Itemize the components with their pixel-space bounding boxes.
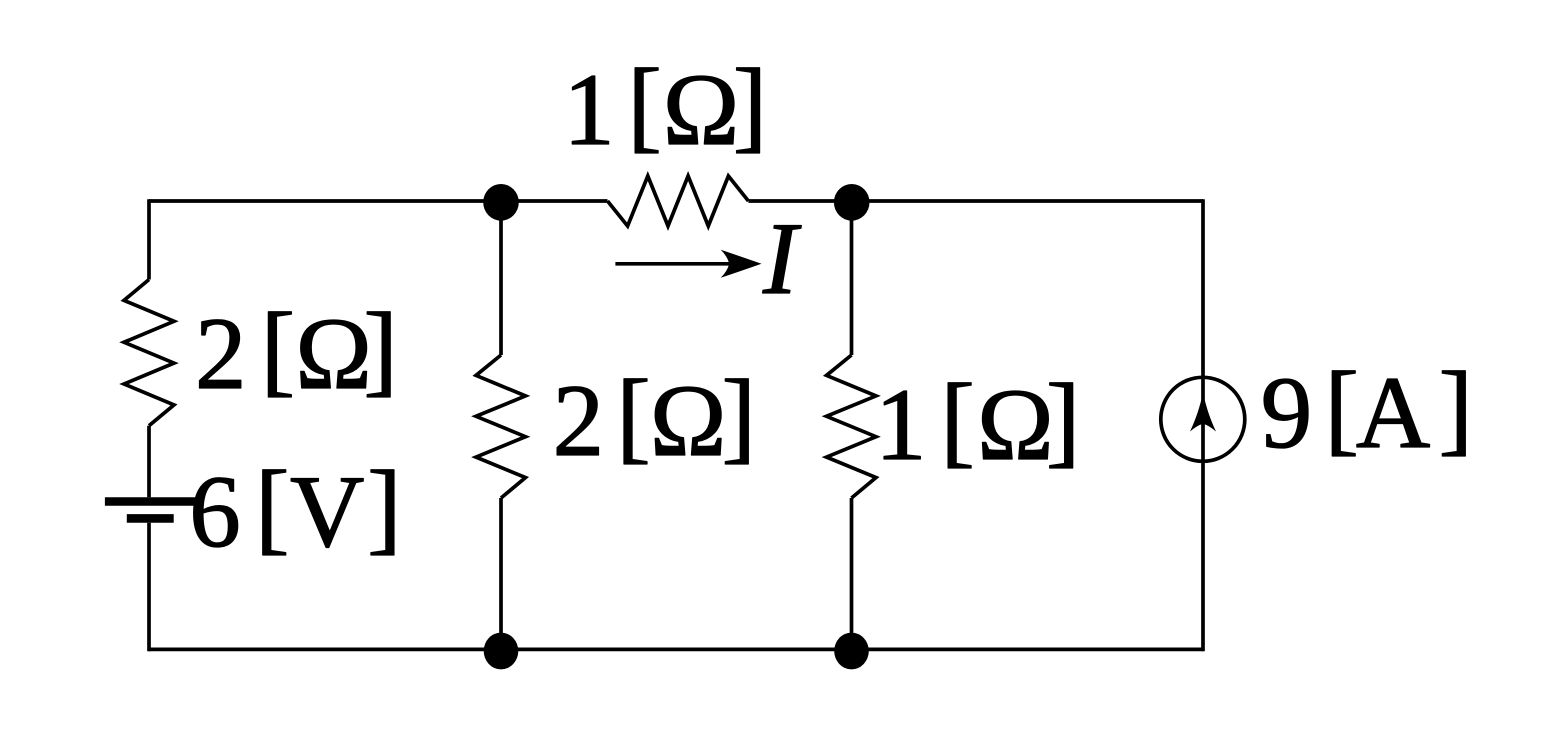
svg-text:]: ] [722, 359, 756, 473]
current source I1 arrowhead (up) [1190, 393, 1216, 432]
svg-text:2: 2 [553, 364, 605, 478]
svg-text:6: 6 [189, 455, 241, 569]
svg-text:[: [ [255, 450, 289, 564]
battery V1 short plate [127, 514, 174, 523]
svg-text:1: 1 [563, 53, 615, 167]
svg-text:[: [ [261, 292, 295, 406]
wire top-left: node A to node B [149, 199, 608, 203]
node E dot (bottom right-middle) [834, 633, 869, 670]
resistor R3 2-ohm (middle vertical zigzag) [476, 355, 526, 498]
svg-text:9: 9 [1261, 356, 1313, 470]
wire right branch [1201, 199, 1205, 651]
svg-text:Ω: Ω [295, 297, 372, 411]
svg-text:1: 1 [875, 368, 927, 482]
wire left branch top [147, 199, 151, 279]
battery V1 long plate [105, 497, 197, 506]
svg-text:[: [ [941, 363, 975, 477]
node C dot (top right-middle) [834, 184, 870, 221]
svg-text:[: [ [616, 359, 650, 473]
svg-text:A: A [1356, 356, 1430, 470]
wire right-middle branch top [850, 201, 854, 355]
svg-text:]: ] [1046, 363, 1080, 477]
svg-text:]: ] [367, 450, 401, 564]
svg-text:Ω: Ω [663, 53, 740, 167]
node D dot (bottom middle) [484, 633, 519, 670]
resistor R1 1-ohm (top horizontal zigzag) [608, 176, 749, 226]
svg-text:[: [ [1325, 351, 1359, 465]
wire left branch middle (resistor to battery) [147, 426, 151, 498]
wire middle branch top [499, 201, 503, 355]
svg-text:I: I [762, 202, 802, 316]
svg-text:]: ] [364, 292, 398, 406]
resistor R4 1-ohm (right-middle vertical zigzag) [827, 355, 877, 498]
wire left branch bottom [147, 523, 151, 652]
current source I1 circle [1161, 377, 1245, 461]
wire top-right: resistor to node C [748, 199, 1203, 203]
wire bottom rail [149, 648, 1203, 652]
resistor R2 2-ohm (left vertical zigzag) [124, 280, 174, 426]
svg-text:Ω: Ω [650, 364, 727, 478]
svg-text:Ω: Ω [977, 368, 1054, 482]
svg-text:]: ] [1439, 351, 1473, 465]
svg-text:V: V [290, 455, 364, 569]
svg-text:]: ] [733, 48, 767, 162]
node A dot (top middle) [483, 184, 519, 221]
wire middle branch bottom [499, 498, 503, 649]
current I arrowhead [721, 250, 762, 278]
svg-text:2: 2 [195, 297, 247, 411]
wire right-middle branch bottom [850, 498, 854, 649]
current I arrow shaft [615, 262, 737, 266]
svg-text:[: [ [628, 48, 662, 162]
